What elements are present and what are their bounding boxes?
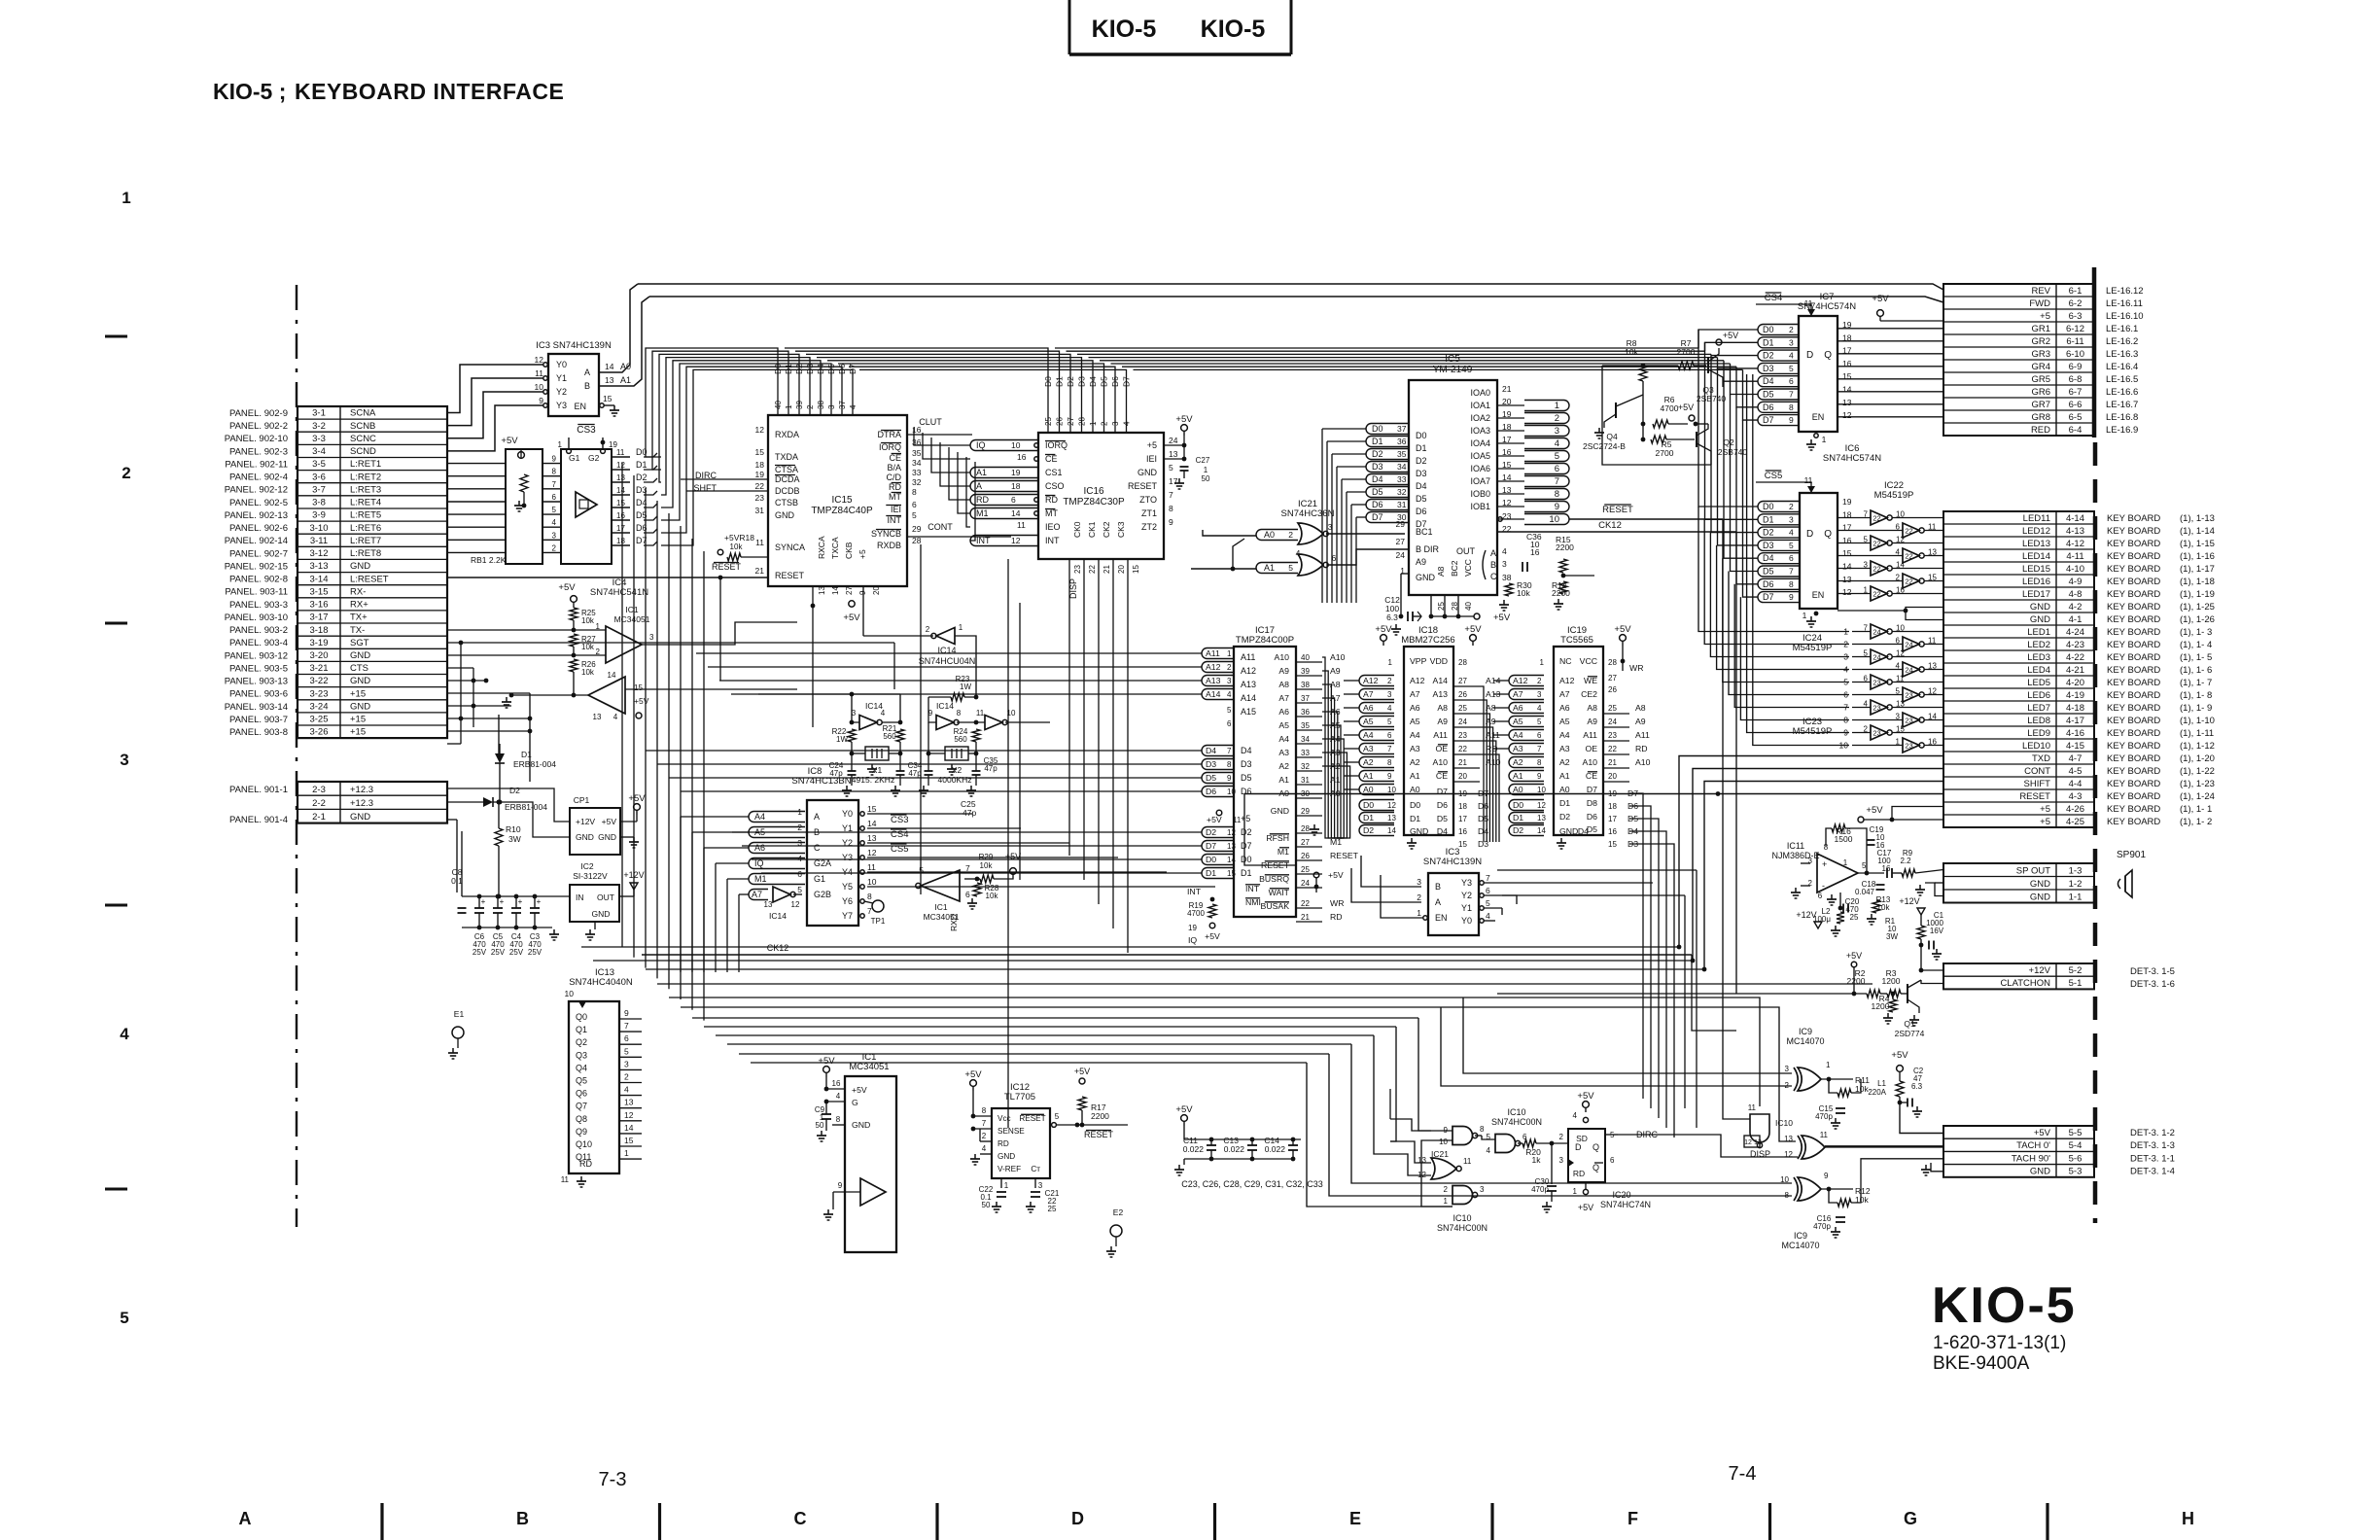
svg-text:5: 5	[797, 885, 802, 894]
svg-text:+12V: +12V	[576, 817, 595, 826]
svg-text:Q2: Q2	[1723, 437, 1734, 447]
svg-text:4700: 4700	[1187, 909, 1205, 918]
power IC7 +5V	[1872, 294, 1943, 321]
svg-text:D3: D3	[1763, 364, 1774, 373]
svg-text:EN: EN	[1812, 412, 1825, 422]
svg-text:LED17: LED17	[2022, 589, 2050, 600]
svg-text:+12V: +12V	[2029, 965, 2051, 976]
svg-text:4: 4	[836, 1092, 841, 1101]
svg-text:IC10: IC10	[1775, 1118, 1793, 1128]
svg-text:5: 5	[1486, 898, 1490, 908]
svg-text:3-11: 3-11	[310, 536, 328, 546]
svg-text:TL7705: TL7705	[1004, 1092, 1035, 1102]
svg-text:IOA1: IOA1	[1470, 401, 1490, 410]
svg-text:3: 3	[649, 633, 654, 642]
svg-text:10: 10	[1439, 1137, 1448, 1146]
svg-text:DTRA: DTRA	[878, 430, 902, 439]
svg-text:5-1: 5-1	[2069, 978, 2082, 989]
svg-text:A14: A14	[1433, 676, 1449, 685]
svg-text:D7: D7	[1122, 376, 1132, 387]
svg-text:D8: D8	[1587, 798, 1597, 808]
svg-text:27: 27	[1067, 417, 1075, 426]
svg-text:19: 19	[755, 470, 765, 479]
svg-text:13: 13	[1227, 842, 1236, 851]
svg-text:6: 6	[1555, 464, 1559, 474]
svg-text:10k: 10k	[581, 643, 595, 651]
svg-text:3: 3	[1502, 559, 1507, 569]
svg-text:22: 22	[1905, 577, 1912, 586]
svg-text:10k: 10k	[730, 542, 744, 551]
svg-text:A1: A1	[1278, 775, 1289, 785]
svg-text:MC34051: MC34051	[614, 614, 650, 624]
svg-text:A2: A2	[1559, 757, 1570, 767]
svg-text:Q9: Q9	[576, 1127, 587, 1137]
svg-text:D5: D5	[1763, 390, 1774, 400]
svg-text:14: 14	[608, 671, 616, 680]
svg-text:M1: M1	[754, 874, 767, 884]
svg-text:3: 3	[827, 404, 836, 409]
svg-text:PANEL. 903-12: PANEL. 903-12	[225, 650, 288, 661]
svg-text:5: 5	[1387, 717, 1392, 726]
svg-text:PANEL. 902-15: PANEL. 902-15	[225, 561, 288, 572]
svg-text:21: 21	[1608, 758, 1617, 767]
svg-text:12: 12	[1842, 410, 1852, 420]
svg-text:A12: A12	[1363, 676, 1379, 685]
svg-text:12: 12	[535, 355, 544, 365]
svg-text:GND: GND	[1410, 826, 1428, 836]
svg-text:A12: A12	[1206, 662, 1221, 672]
svg-text:Cт: Cт	[1031, 1165, 1040, 1173]
svg-text:7: 7	[1486, 873, 1490, 883]
svg-text:OE: OE	[1585, 744, 1597, 753]
svg-text:SN74HC36N: SN74HC36N	[1281, 508, 1335, 519]
svg-text:35: 35	[1397, 449, 1407, 459]
svg-text:KEY BOARD: KEY BOARD	[2107, 640, 2160, 650]
svg-text:2-2: 2-2	[312, 798, 326, 809]
svg-text:+5V: +5V	[852, 1085, 867, 1095]
svg-text:D2: D2	[1363, 825, 1374, 835]
svg-text:D1: D1	[1206, 868, 1216, 878]
svg-text:D: D	[1575, 1142, 1582, 1152]
svg-text:(1), 1- 6: (1), 1- 6	[2180, 665, 2212, 676]
svg-text:38: 38	[817, 401, 825, 409]
transistor Q1 clatchon driver	[1497, 951, 1943, 1038]
svg-text:D3: D3	[1372, 462, 1383, 472]
svg-text:5: 5	[624, 1046, 629, 1056]
svg-text:GND: GND	[1137, 468, 1158, 477]
svg-text:17: 17	[1458, 815, 1467, 823]
svg-text:CS3: CS3	[891, 815, 908, 825]
svg-text:C/D: C/D	[887, 472, 902, 482]
svg-text:GND: GND	[350, 812, 370, 822]
svg-text:24: 24	[1905, 641, 1912, 649]
svg-text:4-26: 4-26	[2066, 804, 2084, 815]
svg-text:LE-16.10: LE-16.10	[2106, 311, 2144, 322]
svg-text:24: 24	[1396, 550, 1406, 560]
svg-text:17: 17	[1608, 815, 1617, 823]
svg-text:25: 25	[1458, 704, 1467, 713]
svg-text:D3: D3	[1206, 759, 1216, 769]
svg-text:Q6: Q6	[576, 1089, 587, 1099]
svg-text:PANEL. 902-13: PANEL. 902-13	[225, 510, 288, 521]
svg-text:8: 8	[912, 487, 917, 497]
svg-text:A0: A0	[1513, 785, 1523, 794]
svg-text:19: 19	[1188, 924, 1197, 932]
svg-text:MC14070: MC14070	[1781, 1241, 1819, 1250]
svg-text:24: 24	[1608, 717, 1617, 726]
svg-text:A10: A10	[1275, 652, 1290, 662]
svg-text:3-3: 3-3	[312, 434, 326, 444]
svg-text:SN74HC574N: SN74HC574N	[1823, 453, 1881, 464]
svg-text:3: 3	[1480, 1185, 1485, 1194]
svg-text:6-12: 6-12	[2066, 324, 2084, 334]
sio IC16 TMPZ84C30P	[1038, 376, 1178, 574]
svg-text:SCNB: SCNB	[350, 421, 375, 432]
svg-text:D0: D0	[1372, 424, 1383, 434]
svg-text:(1), 1-22: (1), 1-22	[2180, 766, 2215, 777]
svg-text:7: 7	[1227, 747, 1232, 755]
svg-text:PANEL. 903-10: PANEL. 903-10	[225, 612, 288, 623]
svg-text:LED1: LED1	[2027, 627, 2050, 638]
svg-text:D2: D2	[1763, 351, 1774, 361]
svg-text:+5V: +5V	[2034, 1128, 2051, 1138]
svg-text:CS1: CS1	[1045, 468, 1063, 477]
svg-text:19: 19	[1842, 497, 1852, 507]
svg-text:25: 25	[1048, 1205, 1057, 1213]
heavy border line right top	[2092, 267, 2097, 437]
svg-text:(1), 1-23: (1), 1-23	[2180, 779, 2215, 789]
svg-text:4-24: 4-24	[2066, 627, 2084, 638]
header box KIO-5	[1069, 0, 1291, 54]
svg-text:CS4: CS4	[1765, 293, 1782, 303]
svg-text:LED2: LED2	[2027, 640, 2050, 650]
svg-text:D0: D0	[1763, 502, 1774, 511]
svg-text:+5: +5	[1241, 814, 1250, 823]
svg-text:CK12: CK12	[767, 943, 789, 953]
svg-text:5: 5	[1789, 364, 1794, 373]
svg-text:+5V: +5V	[1872, 294, 1889, 304]
svg-text:Q: Q	[1824, 350, 1832, 361]
svg-text:RD: RD	[1330, 912, 1343, 922]
svg-text:NJM386D-E: NJM386D-E	[1771, 851, 1819, 860]
svg-text:3-6: 3-6	[312, 472, 326, 482]
svg-text:BC1: BC1	[1416, 527, 1433, 537]
svg-text:C: C	[1490, 572, 1497, 581]
svg-text:EN: EN	[574, 402, 586, 411]
svg-text:RD: RD	[976, 495, 989, 505]
svg-text:15: 15	[1458, 840, 1467, 849]
svg-text:23: 23	[1872, 729, 1880, 738]
svg-text:A13: A13	[1241, 680, 1256, 689]
svg-text:IC9: IC9	[1799, 1027, 1812, 1036]
connector table DET power	[1943, 963, 2175, 990]
svg-text:1: 1	[1802, 611, 1807, 620]
label DIRC SHFT	[681, 471, 768, 493]
svg-text:(1), 1-16: (1), 1-16	[2180, 551, 2215, 562]
svg-text:8: 8	[1789, 579, 1794, 589]
svg-text:CK0: CK0	[1072, 521, 1082, 538]
svg-text:7: 7	[1789, 567, 1794, 577]
svg-text:6: 6	[1789, 553, 1794, 563]
svg-text:IEI: IEI	[1146, 454, 1157, 464]
svg-text:GR5: GR5	[2031, 374, 2050, 385]
svg-text:25V: 25V	[472, 948, 487, 957]
svg-text:32: 32	[1301, 762, 1310, 771]
svg-text:(1), 1-12: (1), 1-12	[2180, 741, 2215, 752]
svg-text:13: 13	[818, 586, 826, 595]
svg-text:INT: INT	[1045, 536, 1060, 545]
svg-text:LED6: LED6	[2027, 690, 2050, 701]
label IC23	[1793, 717, 1833, 737]
svg-text:13: 13	[867, 833, 877, 843]
wire vertical bus mid	[921, 544, 1020, 1128]
svg-text:SP OUT: SP OUT	[2016, 865, 2050, 876]
svg-text:A3: A3	[1513, 744, 1523, 753]
svg-text:14: 14	[1842, 562, 1852, 572]
svg-text:LED15: LED15	[2022, 564, 2050, 575]
svg-text:Y1: Y1	[556, 373, 567, 383]
svg-text:A: A	[976, 481, 982, 491]
svg-text:4-18: 4-18	[2066, 703, 2084, 714]
supervisor IC12 TL7705	[964, 1067, 1128, 1213]
svg-text:0.022: 0.022	[1224, 1144, 1245, 1154]
svg-text:6-8: 6-8	[2069, 374, 2082, 385]
svg-text:7: 7	[1537, 745, 1542, 753]
svg-text:D5: D5	[1416, 494, 1427, 504]
svg-text:D0: D0	[1410, 800, 1420, 810]
svg-text:3-24: 3-24	[309, 702, 328, 713]
svg-text:B: B	[1490, 560, 1496, 570]
svg-text:+: +	[537, 897, 542, 906]
svg-text:10: 10	[1387, 786, 1396, 794]
svg-text:C27: C27	[1196, 456, 1210, 465]
svg-text:MT: MT	[889, 492, 901, 502]
svg-text:+5V: +5V	[501, 436, 518, 446]
svg-text:A7: A7	[1559, 689, 1570, 699]
svg-text:GND: GND	[775, 510, 795, 520]
svg-text:D2: D2	[1372, 449, 1383, 459]
svg-text:IC1: IC1	[625, 605, 639, 614]
svg-text:36: 36	[1397, 437, 1407, 446]
svg-text:23: 23	[1905, 742, 1912, 751]
svg-text:1: 1	[1843, 858, 1848, 867]
net RESET CK12 labels	[1497, 505, 1736, 532]
svg-text:DET-3. 1-2: DET-3. 1-2	[2130, 1128, 2175, 1138]
svg-text:D2: D2	[1763, 528, 1774, 538]
svg-text:+5: +5	[2040, 804, 2050, 815]
svg-text:CK2: CK2	[1102, 521, 1111, 538]
svg-text:1: 1	[1388, 658, 1393, 667]
svg-text:2.2: 2.2	[1900, 857, 1911, 865]
svg-text:11: 11	[535, 368, 543, 378]
net tags IC16 inputs	[970, 440, 1038, 546]
svg-text:(1), 1-26: (1), 1-26	[2180, 614, 2215, 625]
power IC19 +5V	[1614, 624, 1631, 671]
svg-text:A3: A3	[1278, 748, 1289, 757]
svg-text:9: 9	[1555, 502, 1559, 512]
svg-text:16: 16	[1530, 547, 1540, 557]
svg-text:5-6: 5-6	[2069, 1153, 2082, 1164]
svg-text:5-2: 5-2	[2069, 965, 2082, 976]
svg-text:A3: A3	[1363, 744, 1374, 753]
svg-text:(1), 1- 3: (1), 1- 3	[2180, 627, 2212, 638]
svg-text:D2: D2	[636, 472, 647, 482]
svg-text:CS3: CS3	[577, 425, 596, 436]
svg-text:1: 1	[785, 404, 793, 409]
svg-text:GND: GND	[576, 832, 594, 842]
svg-text:D7: D7	[1763, 415, 1774, 425]
svg-text:2: 2	[1789, 502, 1794, 511]
svg-text:12: 12	[1537, 801, 1546, 810]
svg-text:30: 30	[1397, 512, 1407, 522]
svg-text:TACH 90': TACH 90'	[2012, 1153, 2050, 1164]
svg-text:D1: D1	[784, 364, 793, 374]
svg-text:WAIT: WAIT	[1269, 888, 1290, 897]
svg-text:12: 12	[1227, 828, 1236, 837]
svg-text:26: 26	[1301, 852, 1310, 860]
svg-text:TMPZ84C00P: TMPZ84C00P	[1236, 635, 1294, 646]
svg-text:16: 16	[616, 511, 625, 520]
svg-text:2SD774: 2SD774	[1895, 1029, 1925, 1038]
svg-text:12: 12	[1011, 536, 1021, 545]
svg-text:D6: D6	[1587, 812, 1597, 822]
svg-text:RD: RD	[1045, 495, 1058, 505]
svg-text:IC10: IC10	[1452, 1213, 1471, 1223]
svg-text:23: 23	[1608, 731, 1617, 740]
svg-text:A6: A6	[1513, 703, 1523, 713]
svg-text:WR: WR	[1629, 663, 1643, 673]
svg-text:CE: CE	[1436, 771, 1448, 781]
svg-text:A2: A2	[1278, 761, 1289, 771]
svg-text:DET-3. 1-5: DET-3. 1-5	[2130, 966, 2175, 977]
svg-text:+5V: +5V	[843, 612, 860, 623]
svg-text:4-25: 4-25	[2066, 817, 2084, 827]
svg-text:B: B	[584, 381, 590, 391]
svg-text:4: 4	[849, 404, 857, 409]
wire bus to IC22 inputs	[1698, 330, 1758, 597]
svg-text:IC10: IC10	[1507, 1107, 1525, 1117]
pins IC19	[1509, 658, 1651, 849]
svg-text:7-3: 7-3	[599, 1469, 627, 1490]
svg-text:18: 18	[1011, 481, 1021, 491]
svg-text:4: 4	[552, 518, 557, 527]
line receiver IC1 MC34051	[916, 852, 1021, 931]
page title	[213, 79, 564, 104]
svg-text:M54519P: M54519P	[1874, 490, 1914, 501]
filter L1 C2 +5V	[1868, 1050, 1943, 1134]
svg-text:+: +	[1822, 859, 1827, 869]
svg-text:38: 38	[1301, 681, 1310, 689]
svg-text:(1), 1-20: (1), 1-20	[2180, 753, 2215, 764]
svg-text:SCNC: SCNC	[350, 434, 376, 444]
svg-text:EN: EN	[1812, 590, 1825, 600]
svg-text:L:RET5: L:RET5	[350, 510, 381, 521]
svg-text:8: 8	[1789, 402, 1794, 412]
svg-text:IC1: IC1	[934, 902, 948, 912]
svg-text:9: 9	[1169, 517, 1173, 527]
svg-text:CTS: CTS	[350, 663, 368, 674]
svg-text:A12: A12	[1241, 666, 1256, 676]
wire IC3b outputs	[1484, 883, 1653, 921]
svg-text:3-17: 3-17	[309, 612, 328, 623]
svg-text:SN74HC541N: SN74HC541N	[590, 587, 648, 598]
svg-text:18: 18	[755, 460, 765, 470]
xor IC9 gate C	[1780, 1172, 1871, 1250]
svg-text:+5V: +5V	[964, 1069, 982, 1080]
svg-text:11: 11	[616, 448, 625, 457]
svg-text:5: 5	[1169, 463, 1173, 472]
svg-text:IC3 SN74HC139N: IC3 SN74HC139N	[536, 340, 612, 351]
svg-text:LE-16.8: LE-16.8	[2106, 412, 2138, 423]
svg-text:D3: D3	[1416, 469, 1427, 478]
wire staircase to bottom logic	[1307, 997, 1796, 1207]
svg-text:2: 2	[624, 1072, 629, 1082]
svg-text:A4: A4	[1278, 734, 1289, 744]
decoder IC3 bottom SN74HC139N	[1417, 847, 1490, 935]
svg-text:2: 2	[552, 543, 557, 552]
flipflop IC20 SN74HC74N	[1559, 1091, 1659, 1212]
svg-text:A9: A9	[1330, 666, 1341, 676]
svg-text:GND: GND	[997, 1152, 1015, 1161]
svg-text:D4: D4	[1763, 553, 1774, 563]
svg-text:A1: A1	[1513, 771, 1523, 781]
svg-text:Q5: Q5	[576, 1076, 587, 1086]
svg-text:Y4: Y4	[842, 867, 853, 877]
svg-text:4: 4	[1387, 704, 1392, 713]
svg-text:D4: D4	[1206, 746, 1216, 755]
resistor R10	[495, 800, 521, 899]
svg-text:3: 3	[552, 531, 557, 540]
svg-text:+5V: +5V	[818, 1056, 835, 1067]
wire A0 bus	[599, 284, 1943, 372]
svg-text:IC11: IC11	[1787, 841, 1804, 851]
svg-text:11: 11	[1748, 1103, 1757, 1112]
svg-text:D4: D4	[816, 364, 825, 374]
wire +15 rails	[447, 641, 894, 782]
svg-text:5: 5	[912, 510, 917, 520]
svg-text:RD: RD	[1635, 744, 1648, 753]
svg-text:21: 21	[1502, 384, 1512, 394]
svg-text:TC5565: TC5565	[1560, 635, 1593, 646]
svg-text:WE: WE	[1584, 676, 1597, 685]
svg-text:(1), 1- 1: (1), 1- 1	[2180, 804, 2212, 815]
svg-text:11: 11	[976, 709, 985, 717]
svg-text:IC9: IC9	[1794, 1231, 1807, 1241]
svg-text:A12: A12	[1513, 676, 1528, 685]
svg-text:A2: A2	[1363, 757, 1374, 767]
svg-text:TP1: TP1	[871, 917, 886, 926]
svg-text:20: 20	[1608, 772, 1617, 781]
svg-text:A8: A8	[1587, 703, 1597, 713]
svg-text:12: 12	[616, 461, 625, 470]
power +12V filter R1 C1	[1885, 896, 1944, 972]
svg-text:15: 15	[1842, 548, 1852, 558]
svg-text:+5V: +5V	[558, 582, 576, 593]
svg-text:220A: 220A	[1868, 1088, 1886, 1097]
diode D2	[467, 786, 547, 812]
svg-text:1: 1	[959, 623, 963, 632]
svg-text:A7: A7	[1513, 689, 1523, 699]
svg-text:27: 27	[845, 586, 854, 595]
svg-text:3-5: 3-5	[312, 459, 326, 470]
svg-text:4: 4	[881, 709, 886, 717]
svg-text:GND: GND	[1271, 806, 1289, 816]
svg-text:E: E	[1349, 1509, 1361, 1528]
svg-text:+5V: +5V	[1678, 402, 1694, 412]
svg-text:10: 10	[1227, 787, 1236, 796]
wire ic3b region horizontals	[1497, 870, 1697, 1128]
svg-text:SCNA: SCNA	[350, 408, 376, 419]
